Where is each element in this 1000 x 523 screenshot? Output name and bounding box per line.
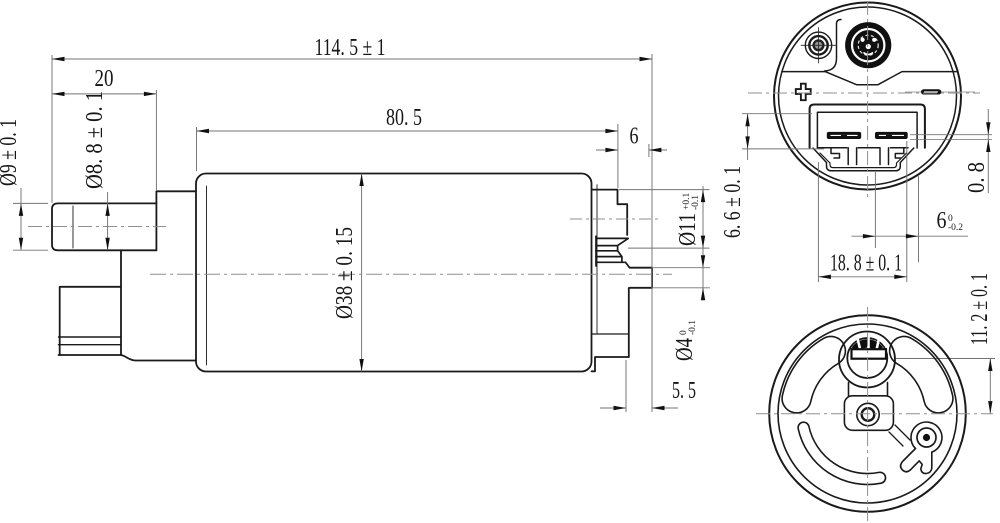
svg-text:0. 8: 0. 8 <box>964 162 990 193</box>
svg-text:Ø8. 8 ± 0. 1: Ø8. 8 ± 0. 1 <box>82 91 108 189</box>
svg-text:Ø4: Ø4 <box>672 338 698 361</box>
svg-text:Ø9 ± 0. 1: Ø9 ± 0. 1 <box>0 119 22 186</box>
svg-text:-0.1: -0.1 <box>691 195 701 210</box>
svg-text:18. 8 ± 0. 1: 18. 8 ± 0. 1 <box>830 251 902 277</box>
svg-text:-0.2: -0.2 <box>948 223 963 233</box>
svg-text:80. 5: 80. 5 <box>386 105 422 131</box>
svg-text:6: 6 <box>937 208 947 234</box>
svg-text:-0.1: -0.1 <box>688 320 698 335</box>
svg-text:11. 2 ± 0. 1: 11. 2 ± 0. 1 <box>967 273 993 345</box>
svg-text:Ø38 ± 0. 15: Ø38 ± 0. 15 <box>332 227 358 319</box>
svg-text:6: 6 <box>630 124 639 150</box>
svg-text:Ø11: Ø11 <box>675 213 701 246</box>
svg-text:20: 20 <box>95 66 114 92</box>
svg-text:5. 5: 5. 5 <box>672 378 696 404</box>
svg-text:114. 5 ± 1: 114. 5 ± 1 <box>315 35 386 61</box>
svg-text:6. 6 ± 0. 1: 6. 6 ± 0. 1 <box>720 166 746 238</box>
